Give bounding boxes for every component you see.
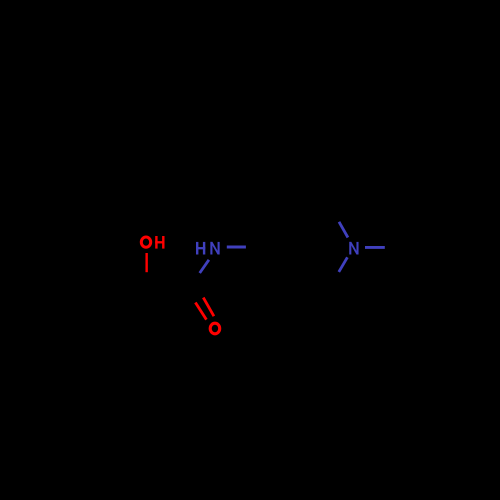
wire: bond O-C of hydroxyl (red half) bbox=[145, 253, 147, 272]
atom label N (ring nitrogen) bbox=[349, 242, 358, 255]
wire: C=O double bond line 2 (red half) bbox=[195, 303, 206, 320]
wire: bond N-CH amide to ring (blue half) bbox=[227, 246, 246, 249]
wire: ring N right bond (blue half) bbox=[365, 246, 385, 249]
wire: ring N upper-left bond (blue half) bbox=[339, 222, 348, 238]
atom label HN (amide) bbox=[196, 242, 220, 255]
atom label O (carbonyl) bbox=[210, 323, 220, 334]
wire: C=O double bond line 1 (red half) bbox=[203, 298, 214, 317]
wire: bond N-C(=O) amide (blue half) bbox=[200, 260, 209, 273]
atom label OH (hydroxyl) bbox=[141, 237, 150, 247]
wire: ring N lower-left bond (blue half) bbox=[339, 257, 348, 272]
